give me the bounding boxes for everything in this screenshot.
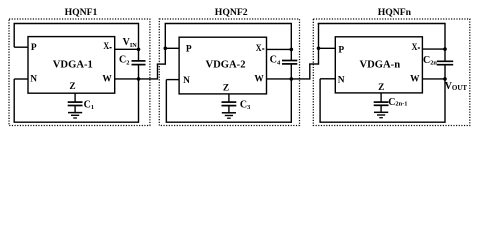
wire N stub (14, 78, 28, 80)
svg-text:HQNF1: HQNF1 (65, 7, 98, 18)
svg-text:VDGA-n: VDGA-n (359, 60, 400, 71)
wire right vertical lower (block3) (444, 65, 446, 123)
wire N loop bottom (block3) (319, 79, 321, 122)
wire P stub (14, 46, 28, 48)
op-amp U3 VDGA-n box (335, 37, 422, 93)
wire W stub out (block2) (267, 78, 310, 80)
svg-text:Z: Z (378, 83, 384, 93)
ground (block 1) (68, 112, 82, 114)
wire C to ground (block3) (380, 105, 382, 112)
capacitor C2 (132, 60, 146, 62)
node W2 junction dot (290, 77, 294, 81)
wire right vertical upper (block2) (290, 23, 292, 61)
wire Z stub (74, 93, 76, 102)
wire riser W1 to P2 net (157, 64, 159, 80)
ground (block 2) (222, 112, 236, 114)
node X3 junction dot (443, 47, 447, 51)
svg-text:P: P (31, 43, 37, 53)
capacitor C3 (222, 101, 237, 103)
op-amp U2 VDGA-2 box (179, 37, 266, 94)
svg-text:N: N (183, 76, 190, 86)
svg-text:HQNF2: HQNF2 (215, 7, 248, 18)
svg-text:X: X (256, 44, 262, 54)
wire C1 to ground (74, 106, 76, 113)
ground (block 3) (374, 111, 388, 113)
wire X stub (block2) (267, 48, 292, 50)
node X1 junction dot (137, 48, 141, 52)
block HQNF2 dashed box (159, 19, 299, 126)
svg-text:X: X (103, 42, 109, 52)
wire P loop to top (13, 24, 15, 48)
svg-text:W: W (102, 75, 112, 85)
wire P stub with junction dot (block3) (319, 47, 336, 49)
svg-text:W: W (410, 75, 420, 85)
svg-text:P: P (338, 45, 344, 55)
node X2 junction dot (290, 48, 294, 52)
svg-text:W: W (254, 75, 264, 85)
block HQNF1 dashed box (9, 19, 150, 126)
svg-text:VDGA-2: VDGA-2 (205, 60, 245, 71)
capacitor C2n-1 (374, 101, 389, 103)
capacitor C2n (437, 60, 453, 62)
wire N loop bottom (block2) (165, 80, 167, 123)
wire right vertical upper (VIN node) (138, 23, 140, 61)
wire right vertical lower (138, 65, 140, 123)
wire N stub (block3) (320, 78, 335, 80)
wire right vertical lower (block2) (290, 64, 292, 123)
wire X stub (115, 48, 139, 50)
wire Z stub (block3) (380, 93, 382, 102)
svg-text:N: N (30, 75, 37, 85)
wire W stub out to next stage (115, 78, 158, 80)
svg-text:Z: Z (223, 84, 229, 94)
wire C3 to ground (228, 106, 230, 113)
svg-text:HQNFn: HQNFn (378, 7, 412, 18)
wire riser W2 to P3 net (309, 64, 311, 80)
svg-text:P: P (186, 45, 192, 55)
wire Z stub (block2) (228, 94, 230, 102)
svg-text:N: N (338, 75, 345, 85)
wire X stub (block3) (422, 48, 445, 50)
node W1 junction dot (137, 77, 141, 81)
wire P stub with junction dot (165, 47, 179, 49)
svg-text:Z: Z (69, 82, 75, 92)
wire top (block3) (318, 23, 445, 25)
node W3 junction dot (443, 77, 447, 81)
wire W stub (block3) (422, 78, 445, 80)
svg-text:X: X (412, 43, 418, 53)
capacitor C4 (282, 60, 297, 62)
block HQNFn dashed box (313, 19, 470, 126)
wire N loop bottom (13, 79, 15, 122)
svg-text:VDGA-1: VDGA-1 (53, 60, 93, 71)
wire top (block2) (165, 23, 292, 25)
op-amp U1 VDGA-1 box (28, 37, 115, 94)
wire right vertical upper (block3) (444, 23, 446, 61)
wire N stub (166, 79, 179, 81)
capacitor C1 (68, 101, 83, 103)
